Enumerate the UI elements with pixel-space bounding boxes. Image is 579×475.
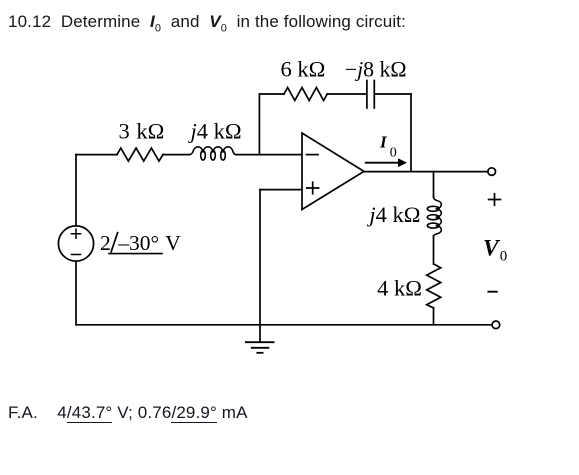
svg-text:V: V [165, 231, 181, 255]
arrow I0 [366, 158, 407, 167]
label V0 [483, 235, 507, 264]
op-amp U1 triangle [302, 133, 364, 210]
wire: output node down to j4k inductor [433, 172, 435, 197]
resistor 3 kOhm (series input) [117, 148, 163, 161]
label: 2/-30 V source value [100, 231, 181, 255]
inductor j4 kOhm (load branch, vertical) [427, 197, 441, 237]
node: inverting-input / feedback tap [258, 94, 260, 155]
title text [8, 11, 406, 36]
capacitor -j8 kOhm, right plate [373, 81, 375, 109]
svg-text:V: V [483, 235, 501, 261]
label: + output polarity [489, 194, 501, 206]
wire: bottom rail [76, 324, 492, 326]
svg-text:6 kΩ: 6 kΩ [281, 56, 326, 81]
svg-text:4 kΩ: 4 kΩ [377, 275, 422, 300]
resistor 6 kOhm (feedback) [284, 88, 327, 101]
wire: main input line, source corner to 3k resistor [76, 154, 117, 156]
wire: non-inverting input to ground column [260, 189, 302, 191]
wire: op-amp output to + terminal [364, 171, 488, 173]
terminal: + output node (open circle) [488, 168, 496, 176]
svg-text:3 kΩ: 3 kΩ [119, 119, 165, 144]
resistor 4 kOhm (load, vertical) [427, 264, 441, 308]
op-amp non-inverting pin marker [307, 182, 319, 194]
wire: feedback right vertical down to output node [410, 94, 412, 172]
svg-text:j4 kΩ: j4 kΩ [366, 202, 420, 227]
svg-text:−j8 kΩ: −j8 kΩ [345, 57, 407, 81]
voltage source 2/-30 V [58, 226, 93, 261]
wire: 3k resistor to j4k inductor [163, 154, 189, 156]
capacitor -j8 kOhm (feedback), left plate [366, 81, 368, 109]
wire: source top lead up to main input line [75, 155, 77, 226]
svg-text:–30°: –30° [117, 231, 159, 255]
wire: 6k resistor to capacitor [327, 93, 366, 95]
label: - output polarity [488, 291, 496, 293]
svg-text:j4 kΩ: j4 kΩ [188, 119, 242, 144]
svg-text:2: 2 [100, 231, 111, 255]
wire: inductor to op-amp inverting input [237, 154, 303, 156]
answer line F.A. [8, 402, 248, 423]
wire: 4k resistor to bottom rail [433, 308, 435, 325]
wire: ground column vertical (through bottom rail) [259, 190, 261, 342]
inductor j4 kOhm (series input) [189, 147, 237, 160]
ground [246, 342, 274, 353]
svg-text:0: 0 [500, 249, 508, 265]
svg-text:0: 0 [390, 146, 397, 161]
op-amp inverting pin marker [307, 154, 319, 156]
wire: capacitor to right feedback corner [374, 93, 411, 95]
wire: source bottom lead [75, 261, 77, 325]
wire: top feedback, left corner to 6k resistor [259, 93, 284, 95]
terminal: - output node (open circle) [492, 321, 500, 329]
wire: inductor to 4k resistor [433, 236, 435, 264]
svg-text:I: I [379, 132, 388, 151]
